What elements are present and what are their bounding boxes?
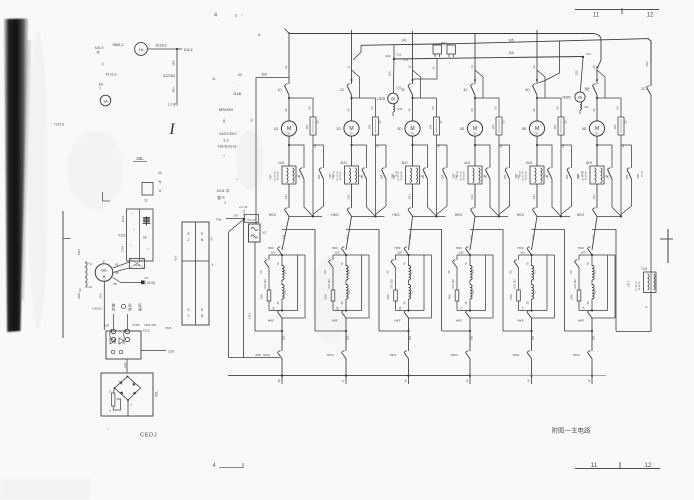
wire 1013x2 <box>147 48 177 50</box>
svg-text:38·39·38: 38·39·38 <box>278 171 280 181</box>
lower 5 HKF contact 2 <box>527 312 532 318</box>
branch 1 right contact path <box>313 144 324 146</box>
generator circle G <box>95 264 113 282</box>
branch 3 wire below block <box>412 184 414 208</box>
svg-text:3C: 3C <box>401 88 406 92</box>
svg-text:2LH: 2LH <box>340 161 347 165</box>
svg-text:5C: 5C <box>509 270 513 274</box>
svg-text:S: S <box>224 201 226 205</box>
svg-text:X221B4: X221B4 <box>163 74 175 78</box>
branch 3 node bar <box>413 215 446 217</box>
branch 6 main to lower <box>592 216 597 250</box>
svg-text:HKG: HKG <box>513 353 520 357</box>
svg-text:54: 54 <box>210 237 214 241</box>
branch 1 block connector <box>296 175 300 177</box>
svg-text:3~: 3~ <box>411 132 415 136</box>
branch 6 wire to motor <box>596 95 598 121</box>
branch 4 main to lower <box>470 216 475 250</box>
svg-text:6C: 6C <box>585 88 590 92</box>
svg-text:U: U <box>159 189 162 193</box>
branch 2 wire to motor <box>351 95 353 121</box>
branch 2 block connector <box>359 175 363 177</box>
lower 6 outer loop <box>592 230 616 332</box>
svg-text:7/47: 7/47 <box>455 174 459 180</box>
lower 4 outer loop <box>470 230 503 332</box>
svg-text:32L: 32L <box>136 156 144 161</box>
pump motor 2MZD <box>575 92 585 102</box>
svg-text:6D: 6D <box>582 127 587 131</box>
svg-text:K1: K1 <box>145 276 149 280</box>
svg-text:82+: 82+ <box>174 255 178 260</box>
svg-text:206: 206 <box>255 353 260 357</box>
svg-text:1RX: 1RX <box>260 294 264 300</box>
svg-text:40: 40 <box>346 108 350 112</box>
svg-text:141: 141 <box>401 39 407 43</box>
svg-text:HKG: HKG <box>390 353 397 357</box>
lower 4 inner box rails <box>457 254 493 256</box>
svg-text:X7D6: X7D6 <box>132 323 140 327</box>
branch 3 contact 3C <box>408 86 413 96</box>
svg-text:HKG: HKG <box>577 213 585 217</box>
lower 4 left branch <box>456 255 458 260</box>
svg-text:3D: 3D <box>397 127 402 131</box>
lower 3 HKF contact 2 <box>404 312 409 318</box>
svg-text:50: 50 <box>556 106 560 110</box>
svg-text:HKG: HKG <box>455 213 463 217</box>
svg-text:2K: 2K <box>606 175 610 179</box>
svg-text:▼: ▼ <box>102 275 105 279</box>
branch 6 feeder jog <box>597 70 605 98</box>
branch 6 wire below block <box>596 184 598 208</box>
svg-text:140: 140 <box>459 251 464 255</box>
svg-text:§: § <box>223 118 225 123</box>
svg-text:7/47: 7/47 <box>269 174 273 180</box>
svg-text::: : <box>237 83 238 88</box>
svg-text:4: 4 <box>214 13 217 19</box>
svg-text:415: 415 <box>99 293 103 298</box>
svg-text:4RX: 4RX <box>448 294 452 300</box>
lower 2 coil branch <box>345 255 347 266</box>
svg-text:2K: 2K <box>360 175 364 179</box>
svg-text:5C: 5C <box>525 88 530 92</box>
svg-text:12: 12 <box>644 462 652 469</box>
lower 4 bypass wire <box>442 330 471 332</box>
svg-text:I: I <box>168 121 175 138</box>
branch 6 block connector <box>604 175 608 177</box>
svg-text:3~: 3~ <box>535 132 539 136</box>
svg-text:66: 66 <box>115 271 119 275</box>
wire to K1 43.08 <box>121 282 141 284</box>
branch 3 wire below motor <box>412 136 414 166</box>
lower 3 left branch <box>395 255 397 260</box>
branch 1 node bar <box>289 215 322 217</box>
branch 4 resistor path <box>475 97 499 99</box>
svg-text:1R2: 1R2 <box>613 124 617 129</box>
scan smudge 1 <box>67 130 123 210</box>
svg-text:13U: 13U <box>284 194 288 199</box>
svg-text:12: 12 <box>407 65 411 69</box>
far right feeder vertical <box>650 41 652 86</box>
svg-text:1R2 182: 1R2 182 <box>514 279 517 289</box>
svg-text:N: N <box>201 238 204 242</box>
svg-text:LR2D: LR2D <box>377 97 386 101</box>
svg-text:型 S: 型 S <box>217 195 225 200</box>
transformer winding <box>85 262 87 287</box>
svg-text:7/D6 432: 7/D6 432 <box>144 323 157 327</box>
svg-text:38·38·39: 38·38·39 <box>639 281 641 291</box>
svg-text:1R2 182: 1R2 182 <box>391 279 394 289</box>
svg-text:1A: 1A <box>139 47 144 52</box>
bus line 2 <box>361 39 651 62</box>
svg-text:3C·3C·3C: 3C·3C·3C <box>275 171 277 181</box>
pump feeder wire <box>392 59 395 93</box>
svg-text:1R2: 1R2 <box>553 124 557 129</box>
lower 5 left branch <box>518 255 520 260</box>
svg-text:13U: 13U <box>592 194 596 199</box>
branch 5 wire below motor <box>536 136 538 166</box>
svg-text:C1: C1 <box>283 270 287 274</box>
svg-text:X151: X151 <box>118 234 126 238</box>
scan smudge 5 <box>28 30 48 330</box>
svg-text:3~: 3~ <box>287 132 291 136</box>
svg-text:4C: 4C <box>463 88 468 92</box>
svg-text:1R2: 1R2 <box>491 124 495 129</box>
svg-text:6LH: 6LH <box>586 161 593 165</box>
lower 3 outer loop <box>409 230 442 332</box>
branch 5 bypass contact path <box>537 145 552 168</box>
lower 5 coil branch <box>531 255 533 266</box>
svg-text:2MZD: 2MZD <box>562 96 571 100</box>
svg-text:1A: 1A <box>103 100 108 104</box>
svg-text:38·39·38: 38·39·38 <box>586 171 588 181</box>
svg-text:M: M <box>578 95 582 100</box>
svg-text:40: 40 <box>592 108 596 112</box>
svg-text:X211 中: X211 中 <box>216 188 229 193</box>
svg-text:C2: C2 <box>410 290 414 294</box>
contact 7C <box>647 88 652 96</box>
svg-text:HKF: HKF <box>456 319 462 323</box>
node X14 <box>582 56 584 58</box>
svg-text:C1: C1 <box>533 270 537 274</box>
branch 1 main to lower <box>282 216 289 250</box>
motor 4D <box>467 121 482 136</box>
svg-text:13U: 13U <box>470 194 474 199</box>
svg-text:170: 170 <box>460 306 464 311</box>
lower 1 second loop <box>304 255 306 318</box>
svg-text:C2: C2 <box>471 290 475 294</box>
svg-text:50: 50 <box>616 106 620 110</box>
branch 5 wire below block <box>536 184 538 208</box>
lower 1 bypass wire <box>255 330 282 332</box>
svg-text:165: 165 <box>346 335 350 340</box>
svg-text:3~: 3~ <box>595 132 599 136</box>
branch 4 feeder jog <box>475 70 483 98</box>
svg-text:174: 174 <box>582 306 586 311</box>
branch 1 feeder wire 51 <box>288 32 290 84</box>
bus line 3 <box>394 57 583 60</box>
svg-text:3RX: 3RX <box>386 294 390 300</box>
svg-text:21: 21 <box>144 199 148 203</box>
branch 3 bus hook <box>414 58 438 79</box>
svg-text:1C: 1C <box>277 88 282 92</box>
svg-text:45.21.6: 45.21.6 <box>106 73 117 77</box>
branch 3 wire to motor <box>412 95 414 121</box>
branch 5 contact 5C <box>533 86 538 96</box>
svg-text:| 43.08: | 43.08 <box>145 281 155 285</box>
lower 1 coil branch <box>281 255 283 266</box>
svg-text:49c2: 49c2 <box>121 215 125 222</box>
svg-text:38·39·38: 38·39·38 <box>526 171 528 181</box>
svg-text:l: l <box>242 13 243 18</box>
svg-text:1LH: 1LH <box>278 161 285 165</box>
branch 5 wire to motor <box>536 95 538 121</box>
svg-text:C2: C2 <box>593 290 597 294</box>
lower 1 HKF contact 2 <box>278 312 283 318</box>
bridge rectifier outer box <box>101 373 153 416</box>
svg-text:165: 165 <box>592 335 596 340</box>
branch 1 wire below motor <box>288 136 290 166</box>
motor 5D <box>529 121 544 136</box>
svg-text:103: 103 <box>388 71 392 76</box>
svg-text:38·39·38: 38·39·38 <box>340 171 342 181</box>
svg-text:105: 105 <box>508 39 514 43</box>
meter 1A circle A <box>135 43 148 56</box>
svg-text:7LH: 7LH <box>641 267 648 271</box>
svg-text:ZC: ZC <box>641 87 646 91</box>
frame box with 車 <box>127 209 154 261</box>
branch 3 main to lower <box>409 216 413 250</box>
svg-text:207: 207 <box>233 214 238 218</box>
lower 2 second loop <box>368 255 370 318</box>
svg-text:7/86: 7/86 <box>215 218 221 222</box>
lower 4 bus stub <box>469 374 471 376</box>
svg-text:7/47: 7/47 <box>392 174 396 180</box>
svg-text:3R2: 3R2 <box>172 60 176 66</box>
svg-text:13U: 13U <box>407 194 411 199</box>
branch 5 feeder jog <box>537 70 545 98</box>
svg-text:1N2.6: 1N2.6 <box>183 48 192 52</box>
svg-text:142: 142 <box>520 251 525 255</box>
svg-text:180: 180 <box>380 174 384 179</box>
svg-text:HKF: HKF <box>578 246 584 250</box>
svg-text:432: 432 <box>385 54 390 58</box>
lower 1 inner box rails <box>269 254 305 256</box>
wire 207 <box>226 218 244 220</box>
branch 2 wire below block <box>351 184 353 208</box>
branch 4 right contact path <box>499 144 510 146</box>
svg-text:+: + <box>133 227 135 231</box>
svg-text:180: 180 <box>441 174 445 179</box>
generator wires right <box>113 262 130 268</box>
svg-text:附图一主电路: 附图一主电路 <box>552 426 592 435</box>
lower 1 bus stub <box>281 374 283 376</box>
branch 2 bypass contact path <box>352 145 367 168</box>
branch 6 feeder wire 15 <box>596 66 598 84</box>
svg-text:HKG: HKG <box>327 353 334 357</box>
svg-text:131: 131 <box>470 234 474 239</box>
svg-text:218: 218 <box>123 363 127 368</box>
svg-text:1R2: 1R2 <box>368 124 372 129</box>
pump motor LR2D <box>388 93 399 104</box>
svg-text:3~: 3~ <box>350 132 354 136</box>
bus line 1 <box>289 34 601 69</box>
svg-text:131: 131 <box>408 234 412 239</box>
branch 1 bypass contact path <box>289 145 304 168</box>
svg-text:15: 15 <box>592 65 596 69</box>
svg-text:131: 131 <box>346 234 350 239</box>
svg-text:2K: 2K <box>484 175 488 179</box>
svg-text:180: 180 <box>625 174 629 179</box>
branch 2 feeder jog <box>352 70 360 98</box>
svg-text:+: + <box>131 211 133 215</box>
svg-text:50: 50 <box>494 106 498 110</box>
small square box 21 <box>142 183 153 196</box>
branch 4 feeder wire 13 <box>474 33 476 84</box>
motor 1D <box>281 121 296 136</box>
svg-text:4C: 4C <box>447 270 451 274</box>
svg-text:7/47: 7/47 <box>331 174 335 180</box>
svg-text:43: 43 <box>115 263 119 267</box>
svg-text:1314: 1314 <box>248 312 252 319</box>
svg-text:3LH: 3LH <box>401 161 408 165</box>
svg-text:206: 206 <box>261 73 267 77</box>
lower 5 second loop <box>554 255 556 318</box>
branch 2 node bar <box>352 215 385 217</box>
svg-text:X41.9: X41.9 <box>95 46 104 50</box>
branch 5 right contact path <box>561 144 572 146</box>
branch 6 contact 6C <box>593 86 598 96</box>
scan smudge 3 <box>312 255 348 345</box>
svg-text:86: 86 <box>113 282 117 286</box>
lower 1 outer loop <box>282 230 315 332</box>
motor 6D <box>589 121 604 136</box>
bottom bus wire <box>228 375 470 377</box>
svg-text:1D: 1D <box>274 127 279 131</box>
svg-text:HKF: HKF <box>268 246 274 250</box>
svg-text:131: 131 <box>282 234 286 239</box>
branch 6 bypass contact path <box>597 145 612 168</box>
rail below YC2 <box>254 242 256 331</box>
svg-text:1R2 182: 1R2 182 <box>264 279 267 289</box>
lower 3 bypass wire <box>379 330 409 332</box>
svg-text:7/47: 7/47 <box>517 174 521 180</box>
svg-text:HKF: HKF <box>456 246 462 250</box>
svg-text:1R2: 1R2 <box>429 124 433 129</box>
svg-text:C1: C1 <box>593 270 597 274</box>
branch 6 resistor path <box>597 97 621 99</box>
svg-text:13: 13 <box>470 65 474 69</box>
svg-text:2K: 2K <box>298 175 302 179</box>
svg-text:152: 152 <box>271 251 276 255</box>
branch 4 wire to motor <box>474 95 476 121</box>
svg-text:1R2 182: 1R2 182 <box>452 279 455 289</box>
svg-text:2D: 2D <box>336 127 341 131</box>
branch 4 wire below block <box>474 184 476 208</box>
svg-text:T: T <box>99 87 101 91</box>
svg-text:LJ (ⅡI): LJ (ⅡI) <box>168 103 178 107</box>
rectifier control box <box>106 331 141 359</box>
meter 1A circle B <box>100 95 111 106</box>
bridge left resistor <box>112 393 115 406</box>
svg-text:車: 車 <box>142 216 151 226</box>
svg-text:HKF: HKF <box>394 319 400 323</box>
lower 3 bus stub <box>407 374 409 376</box>
svg-text:HKG: HKG <box>573 353 580 357</box>
svg-text:5LH: 5LH <box>526 161 533 165</box>
branch 4 block connector <box>482 175 486 177</box>
branch 4 contact 4C <box>471 86 476 96</box>
svg-text:182: 182 <box>404 58 409 62</box>
branch 5 block connector <box>544 175 548 177</box>
svg-text:N: N <box>201 314 204 318</box>
wire rail bottom join <box>229 357 281 359</box>
lower 3 coil branch <box>408 255 410 266</box>
branch 3 block connector <box>420 175 424 177</box>
svg-text:11: 11 <box>346 65 350 68</box>
svg-text:HKG: HKG <box>331 213 339 217</box>
svg-text:14: 14 <box>532 65 536 69</box>
lower 6 coil branch <box>591 255 593 266</box>
svg-text:171: 171 <box>521 306 525 311</box>
svg-text:2K: 2K <box>546 175 550 179</box>
lower 4 coil branch <box>469 255 471 266</box>
svg-text:164: 164 <box>272 306 276 311</box>
svg-text:158: 158 <box>397 251 402 255</box>
wire generator down <box>103 281 105 330</box>
svg-text:2: 2 <box>188 314 190 318</box>
bottom-right ruler <box>575 468 660 470</box>
lower 6 left branch <box>578 255 580 260</box>
svg-text:180: 180 <box>503 174 507 179</box>
lower 6 bus stub <box>591 374 593 376</box>
svg-text:C1: C1 <box>471 270 475 274</box>
svg-text:YC: YC <box>262 231 267 235</box>
svg-text:2K: 2K <box>421 175 425 179</box>
branch 5 feeder wire 14 <box>536 30 538 84</box>
branch 5 main to lower <box>532 216 538 250</box>
lower 5 bypass wire <box>503 330 532 332</box>
svg-text:4LH: 4LH <box>464 161 471 165</box>
svg-text:7/D6: 7/D6 <box>165 326 172 330</box>
svg-text:11: 11 <box>593 13 600 19</box>
branch 2 main to lower <box>346 216 352 250</box>
svg-text:HKF: HKF <box>517 246 523 250</box>
svg-text:XLH: XLH <box>134 263 140 267</box>
svg-text:52: 52 <box>78 288 82 292</box>
svg-text:N1: N1 <box>89 262 93 266</box>
svg-text:5RX: 5RX <box>509 294 513 300</box>
svg-text:9P: 9P <box>143 236 147 240</box>
branch 6 right contact path <box>621 144 632 146</box>
svg-text:C1: C1 <box>410 270 414 274</box>
svg-text:50: 50 <box>308 106 312 110</box>
svg-text:6RX: 6RX <box>570 294 574 300</box>
svg-text:C2: C2 <box>533 290 537 294</box>
wire vertical to LJ <box>176 49 178 103</box>
7LH lower wire <box>650 293 652 332</box>
svg-text:┓: ┓ <box>211 262 214 266</box>
corner mark L <box>103 192 111 201</box>
branch 6 node bar <box>597 215 621 217</box>
pump2 feeder wire <box>580 58 583 92</box>
svg-text:≈211: ≈211 <box>397 107 403 111</box>
rail vertical 92 <box>255 78 257 225</box>
svg-text:HKF: HKF <box>394 246 400 250</box>
svg-text:+L1.08: +L1.08 <box>239 205 248 209</box>
motor 2D <box>344 121 359 136</box>
lower 2 left branch <box>332 255 334 260</box>
bridge diamond with diodes <box>115 377 141 401</box>
